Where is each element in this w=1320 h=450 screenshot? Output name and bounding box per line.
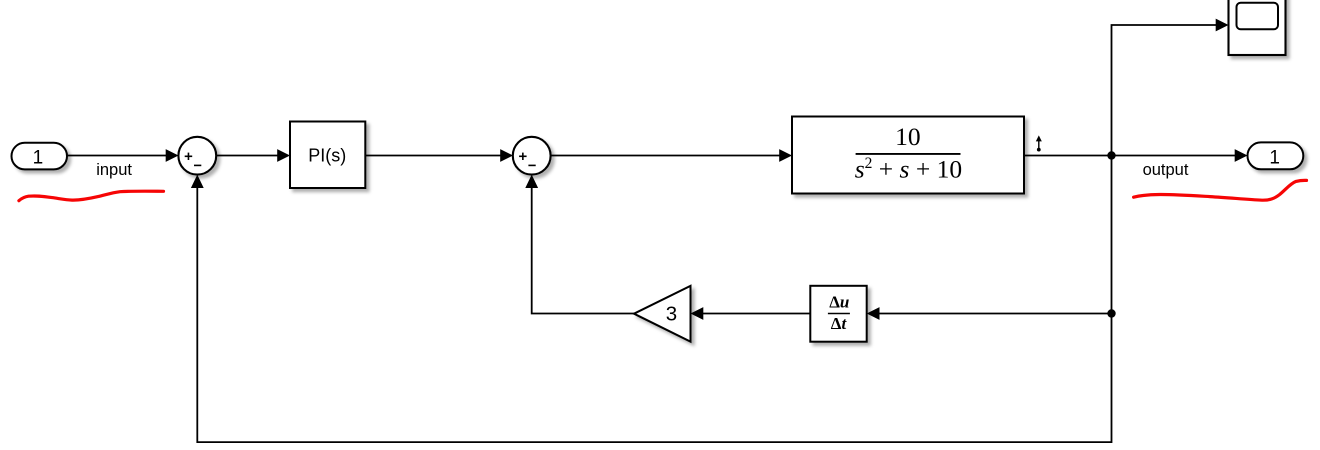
svg-text:1: 1	[1269, 147, 1280, 168]
svg-text:3: 3	[666, 303, 677, 326]
svg-text:PI(s): PI(s)	[308, 145, 346, 165]
svg-text:output: output	[1143, 161, 1189, 179]
svg-text:Δt: Δt	[831, 314, 848, 333]
svg-text:input: input	[96, 161, 132, 179]
svg-text:1: 1	[33, 147, 44, 168]
svg-text:Δu: Δu	[829, 293, 849, 312]
svg-text:10: 10	[895, 122, 921, 151]
